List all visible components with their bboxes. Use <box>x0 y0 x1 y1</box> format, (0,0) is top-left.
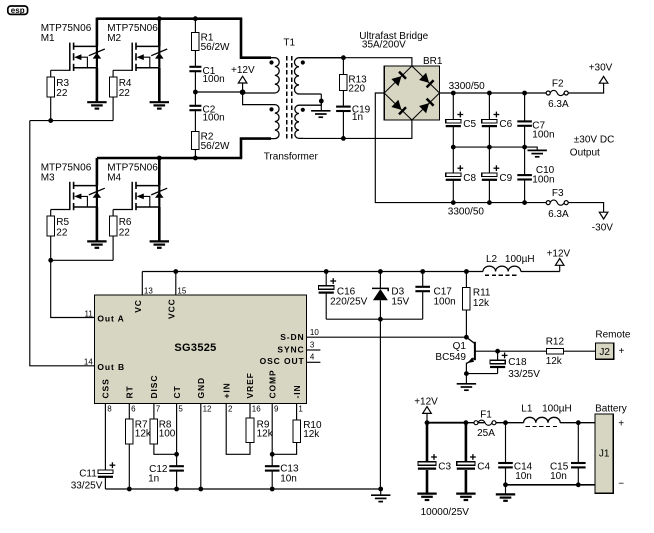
power +12V (transformer center tap) <box>231 65 255 92</box>
transformer T1 secondary winding (bottom) <box>295 105 321 138</box>
svg-text:2: 2 <box>228 405 233 414</box>
svg-text:100n: 100n <box>532 175 554 186</box>
svg-text:M3: M3 <box>41 172 55 183</box>
svg-text:56/2W: 56/2W <box>201 42 230 53</box>
svg-text:3300/50: 3300/50 <box>449 81 486 92</box>
svg-text:VC: VC <box>133 299 143 313</box>
pin 16 VREF <box>245 372 261 413</box>
label Ultrafast Bridge <box>359 31 428 51</box>
capacitor C19 1n <box>336 90 371 123</box>
node: C17 top <box>420 269 425 274</box>
wire: bus to transformer primary bottom <box>241 139 271 158</box>
svg-text:10n: 10n <box>280 473 297 484</box>
svg-text:100n: 100n <box>434 297 456 308</box>
svg-text:3300/50: 3300/50 <box>448 207 485 218</box>
fuse F2 6.3A <box>546 79 569 111</box>
capacitor C1 100n <box>189 50 224 84</box>
svg-text:+: + <box>618 419 624 430</box>
node: C4 top <box>464 420 469 425</box>
ground (C3) <box>417 494 436 500</box>
node: VCC junction <box>173 269 178 274</box>
transistor M2 MTP75N06 <box>113 43 167 103</box>
wire: bridge negative drop <box>375 93 546 203</box>
svg-text:T1: T1 <box>283 38 295 49</box>
capacitor C15 10n <box>550 423 586 485</box>
svg-text:C6: C6 <box>499 119 512 130</box>
svg-text:RT: RT <box>125 385 135 398</box>
svg-text:Q1: Q1 <box>453 341 467 352</box>
svg-text:14: 14 <box>84 358 93 367</box>
connector J2 Remote <box>595 330 630 360</box>
inductor L1 100uH <box>521 404 571 427</box>
node: D3 top <box>378 269 383 274</box>
svg-text:+: + <box>619 346 625 357</box>
wire: lower drain bus <box>97 157 242 160</box>
svg-text:+12V: +12V <box>414 397 438 408</box>
wire: mid 0V rail <box>453 147 537 150</box>
ground (M2 source) <box>150 102 169 108</box>
ground (M3 source) <box>87 241 106 247</box>
svg-text:−: − <box>618 478 624 489</box>
svg-text:100µH: 100µH <box>542 404 572 415</box>
pin 6 RT <box>125 385 137 413</box>
wire: center tap link <box>195 91 242 93</box>
svg-text:12k: 12k <box>546 356 563 367</box>
wire: S-DN to Q1 <box>307 336 467 338</box>
svg-text:100n: 100n <box>203 113 225 124</box>
wire: +12V drain bus (top) <box>97 17 242 20</box>
resistor R12 12k <box>498 336 596 367</box>
pin 9 COMP <box>267 369 279 413</box>
svg-text:F1: F1 <box>480 409 492 420</box>
svg-text:CT: CT <box>172 385 182 398</box>
node: rail junctions <box>522 91 527 96</box>
capacitor C12 1n <box>148 404 184 489</box>
capacitor C10 100n <box>517 147 554 203</box>
svg-text:J2: J2 <box>599 347 610 358</box>
svg-text:esp: esp <box>11 6 25 15</box>
wire: secondary top to bridge <box>299 58 412 66</box>
wire: R5/R6 gate node to Out A <box>50 236 52 260</box>
svg-text:Out A: Out A <box>97 314 124 324</box>
svg-text:1: 1 <box>298 405 303 414</box>
svg-text:C9: C9 <box>499 173 512 184</box>
svg-text:35A/200V: 35A/200V <box>362 39 406 50</box>
wire: bus to transformer primary top <box>241 19 271 58</box>
node: Q1 collector node <box>464 335 469 340</box>
pin 4 OSC OUT <box>260 353 321 366</box>
node: primary center tap <box>240 89 246 95</box>
svg-text:Out B: Out B <box>97 362 125 372</box>
ground (C14) <box>496 485 515 501</box>
svg-text:12k: 12k <box>135 429 152 440</box>
svg-text:SYNC: SYNC <box>277 345 304 355</box>
ground (M1 source) <box>87 102 106 108</box>
label M1 <box>41 23 92 44</box>
resistor R6 22 <box>109 210 132 239</box>
svg-text:F2: F2 <box>552 79 564 90</box>
svg-text:M1: M1 <box>41 33 55 44</box>
svg-text:1n: 1n <box>148 473 159 484</box>
transformer T1 primary winding (bottom) <box>242 92 279 139</box>
svg-text:1n: 1n <box>352 112 363 123</box>
svg-text:M4: M4 <box>107 172 121 183</box>
pin 8 CSS <box>101 378 113 413</box>
label M4 <box>107 162 158 183</box>
svg-text:7: 7 <box>156 405 161 414</box>
node: M4 drain junction <box>157 156 162 161</box>
wire: R3/R4 gate node to Out B <box>50 97 52 121</box>
capacitor C3 10000/25V <box>418 423 452 494</box>
diode D3 15V zener <box>372 272 410 320</box>
capacitor C11 33/25V <box>71 404 116 492</box>
svg-text:11: 11 <box>84 310 93 319</box>
transistor M4 MTP75N06 <box>113 182 167 242</box>
svg-text:DISC: DISC <box>149 375 159 399</box>
svg-text:BC549: BC549 <box>435 352 466 363</box>
wire: secondary bottom to bridge <box>304 120 412 138</box>
capacitor C13 10n <box>265 464 299 489</box>
svg-text:R3: R3 <box>56 78 69 89</box>
transistor M1 MTP75N06 <box>51 43 105 103</box>
svg-text:33/25V: 33/25V <box>508 369 540 380</box>
label M3 <box>41 162 92 183</box>
pin 5 CT <box>172 385 184 413</box>
svg-text:±30V DC: ±30V DC <box>574 135 615 146</box>
svg-text:-IN: -IN <box>292 384 302 398</box>
node: M2 drain junction <box>157 16 162 21</box>
label +/-30V DC Output <box>570 135 615 159</box>
wire: F3 to -30V <box>568 203 604 213</box>
node: CT junction <box>174 452 179 457</box>
svg-text:C8: C8 <box>463 173 476 184</box>
svg-text:SG3525: SG3525 <box>174 342 216 354</box>
svg-text:16: 16 <box>252 405 261 414</box>
capacitor C5 3300/50 <box>446 93 477 147</box>
svg-text:+12V: +12V <box>231 65 255 76</box>
svg-text:22: 22 <box>56 88 68 99</box>
svg-text:+30V: +30V <box>589 63 613 74</box>
node: rail junctions <box>451 91 456 96</box>
ESP logo <box>8 6 28 15</box>
node: C16 top <box>324 269 329 274</box>
svg-text:CSS: CSS <box>101 378 111 398</box>
svg-text:13: 13 <box>144 286 153 295</box>
svg-text:C18: C18 <box>508 357 527 368</box>
pin 3 SYNC <box>277 340 320 354</box>
svg-text:S-DN: S-DN <box>280 332 304 342</box>
wire: ground bus <box>105 488 380 490</box>
svg-text:+IN: +IN <box>221 382 231 398</box>
ground (secondary center tap) <box>311 101 330 117</box>
node: C19 bottom <box>341 136 346 141</box>
svg-text:GND: GND <box>196 377 206 399</box>
svg-text:C3: C3 <box>438 461 451 472</box>
capacitor C8 3300/50 <box>446 147 477 203</box>
capacitor C2 100n <box>189 104 224 123</box>
svg-text:22: 22 <box>119 88 131 99</box>
node: R1 top junction <box>193 16 198 21</box>
node: ground bus junction <box>270 487 275 492</box>
svg-text:6.3A: 6.3A <box>548 209 569 220</box>
svg-text:5: 5 <box>178 405 183 414</box>
pin 13 VC <box>133 272 153 313</box>
node: C14 bottom <box>503 482 508 487</box>
svg-text:10: 10 <box>310 328 319 337</box>
svg-text:56/2W: 56/2W <box>201 141 230 152</box>
node: ground bus end <box>378 487 383 492</box>
node: Q1 emitter node <box>464 371 469 376</box>
wire: M1 drain <box>96 18 99 47</box>
node: COMP junction <box>270 452 275 457</box>
wire: M2 drain <box>158 19 161 47</box>
svg-text:COMP: COMP <box>267 369 277 398</box>
wire: COMP pin <box>271 404 273 467</box>
wire: GND pin to bus <box>200 404 202 489</box>
svg-text:VCC: VCC <box>167 298 177 319</box>
pin 14 Out B <box>84 358 125 372</box>
svg-text:100: 100 <box>159 429 176 440</box>
svg-text:22: 22 <box>119 227 131 238</box>
wire: battery rail <box>427 422 467 424</box>
resistor R3 22 <box>47 70 70 99</box>
node: ground bus junction <box>127 487 132 492</box>
transformer T1 primary winding (top) <box>242 58 279 93</box>
pin 2 +IN <box>221 382 233 413</box>
resistor R9 12k <box>246 404 274 443</box>
capacitor C18 33/25V <box>466 351 540 380</box>
resistor R8 100 <box>150 404 177 455</box>
ground (C4) <box>456 494 475 500</box>
op-amp U1 SG3525 PWM controller <box>94 295 306 404</box>
wire: +12V VCC rail <box>142 271 483 273</box>
pin 1 -IN <box>292 384 304 413</box>
svg-text:12k: 12k <box>303 429 320 440</box>
inductor L2 100uH <box>483 254 535 275</box>
svg-text:L1: L1 <box>521 404 533 415</box>
svg-text:25A: 25A <box>477 428 495 439</box>
ground (M4 source) <box>150 241 169 247</box>
svg-text:100n: 100n <box>203 74 225 85</box>
node: secondary center tap <box>319 99 324 104</box>
resistor R1 56/2W <box>192 19 230 54</box>
svg-text:-30V: -30V <box>592 222 613 233</box>
svg-text:Remote: Remote <box>595 330 630 341</box>
node: midpoint junction <box>193 90 198 95</box>
svg-text:C11: C11 <box>79 469 97 480</box>
wire: C1/C2 midpoint <box>194 71 196 106</box>
svg-text:Transformer: Transformer <box>264 151 319 162</box>
node: Q1 base node <box>495 349 500 354</box>
svg-text:3: 3 <box>310 340 315 349</box>
fuse F1 25A <box>474 409 496 439</box>
svg-text:+12V: +12V <box>547 249 571 260</box>
svg-text:9: 9 <box>274 405 279 414</box>
resistor R13 220 <box>340 58 368 95</box>
node: R11 top <box>464 269 469 274</box>
svg-text:J1: J1 <box>599 448 610 459</box>
wire: battery negative <box>506 484 596 486</box>
pin 7 DISC <box>149 375 161 414</box>
pin 15 VCC <box>167 272 187 320</box>
resistor R11 12k <box>463 272 491 338</box>
svg-text:8: 8 <box>107 405 112 414</box>
svg-text:R5: R5 <box>56 217 69 228</box>
ground (Q1 emitter) <box>457 374 476 391</box>
resistor R5 22 <box>47 210 70 239</box>
capacitor C14 10n <box>498 423 532 485</box>
transformer T1 secondary winding (top) <box>294 58 343 94</box>
svg-text:22: 22 <box>56 227 68 238</box>
node: C15 bottom <box>576 482 581 487</box>
wire: M3 drain <box>96 158 99 186</box>
pin 11 Out A <box>84 310 124 324</box>
node: C3 top <box>425 420 430 425</box>
power +30V <box>589 63 613 84</box>
power +12V (battery) <box>414 397 438 423</box>
svg-text:15: 15 <box>177 286 186 295</box>
svg-text:R6: R6 <box>119 217 132 228</box>
resistor R2 56/2W <box>192 110 230 158</box>
resistor R10 12k <box>272 404 322 455</box>
capacitor C6 3300/50 <box>482 93 513 147</box>
node: rail junctions <box>487 91 492 96</box>
power -30V <box>592 212 613 233</box>
node: C14 top <box>503 420 508 425</box>
svg-text:12k: 12k <box>257 429 274 440</box>
wire: F2 to +30V <box>568 83 604 93</box>
capacitor C4 10000/25V <box>457 423 491 494</box>
svg-text:12: 12 <box>203 405 212 414</box>
svg-text:F3: F3 <box>552 188 564 199</box>
capacitor C16 220/25V <box>319 272 368 320</box>
svg-text:220/25V: 220/25V <box>330 297 368 308</box>
svg-text:Battery: Battery <box>595 403 627 414</box>
svg-text:M2: M2 <box>107 33 121 44</box>
svg-text:6: 6 <box>131 405 136 414</box>
svg-text:C5: C5 <box>463 119 476 130</box>
pin 10 S-DN <box>280 328 319 342</box>
svg-text:4: 4 <box>310 353 315 362</box>
resistor R7 12k <box>126 404 152 489</box>
ground (output 0V) <box>528 150 547 156</box>
svg-text:100n: 100n <box>532 130 554 141</box>
wire: +rail <box>440 92 547 94</box>
svg-text:100µH: 100µH <box>505 254 535 265</box>
svg-text:10n: 10n <box>515 471 532 482</box>
ground (main) <box>371 489 390 502</box>
svg-text:33/25V: 33/25V <box>71 481 103 492</box>
node: R13 top <box>341 55 346 60</box>
svg-text:12k: 12k <box>473 298 490 309</box>
wire: +IN to R9 <box>226 404 250 455</box>
svg-text:R4: R4 <box>119 78 132 89</box>
node: C15 top <box>576 420 581 425</box>
svg-text:10n: 10n <box>550 471 567 482</box>
svg-text:15V: 15V <box>391 297 409 308</box>
node: D3 bottom <box>378 317 383 322</box>
bridge rectifier BR1 <box>384 66 439 120</box>
svg-text:220: 220 <box>348 84 365 95</box>
svg-text:6.3A: 6.3A <box>548 99 569 110</box>
wire: C16/D3/C17 bottoms <box>326 318 423 320</box>
node: R2 bottom junction <box>193 156 198 161</box>
transistor Q1 BC549 <box>435 337 497 373</box>
label M2 <box>107 23 158 44</box>
svg-text:VREF: VREF <box>245 372 255 398</box>
svg-text:10000/25V: 10000/25V <box>421 507 470 518</box>
wire: M4 drain <box>158 158 161 186</box>
svg-text:L2: L2 <box>486 254 498 265</box>
svg-text:Output: Output <box>570 148 600 159</box>
resistor R4 22 <box>109 70 132 99</box>
wire: D3 node to ground bus <box>379 319 381 489</box>
power +12V (after L2) <box>547 249 571 272</box>
transistor M3 MTP75N06 <box>51 182 105 242</box>
connector J1 Battery <box>595 403 627 493</box>
node: R3 junction <box>48 118 53 123</box>
svg-text:OSC OUT: OSC OUT <box>260 356 305 366</box>
capacitor C17 100n <box>415 272 455 320</box>
fuse F3 6.3A <box>546 188 569 220</box>
capacitor C9 3300/50 <box>482 147 513 203</box>
svg-text:BR1: BR1 <box>423 56 443 67</box>
transformer core <box>287 56 292 140</box>
wire: secondary center tap <box>320 94 322 105</box>
svg-text:R12: R12 <box>546 336 565 347</box>
node: ground bus junction <box>198 487 203 492</box>
node: R5 junction <box>48 258 53 263</box>
node: ground bus junction <box>174 487 179 492</box>
pin 12 GND <box>196 377 212 414</box>
svg-text:C4: C4 <box>477 461 490 472</box>
capacitor C7 100n <box>517 93 554 147</box>
